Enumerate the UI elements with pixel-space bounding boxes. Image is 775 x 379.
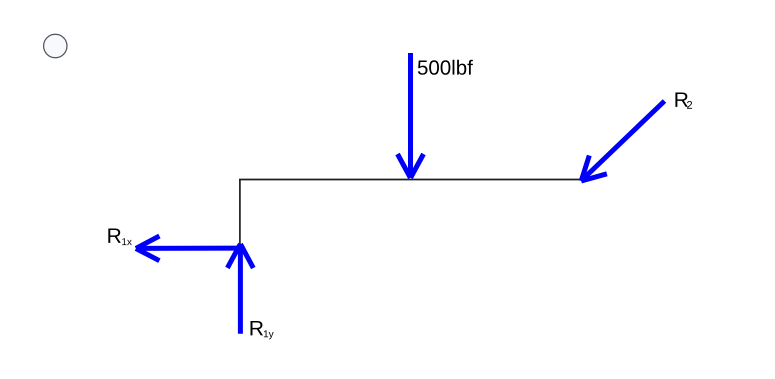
label R1y	[251, 321, 274, 339]
beam horizontal member	[239, 179, 584, 181]
force arrow 500lbf (downward)	[398, 53, 424, 178]
label R2	[675, 92, 692, 108]
beam vertical member	[239, 180, 241, 246]
label 500lbf	[418, 60, 473, 75]
reaction arrow R1x (leftward)	[136, 236, 239, 261]
reaction arrow R1y (upward)	[227, 244, 253, 334]
radio button (unselected option)	[44, 34, 67, 57]
reaction arrow R2 (diagonal, down-left)	[581, 101, 664, 181]
label R1x	[108, 228, 132, 245]
